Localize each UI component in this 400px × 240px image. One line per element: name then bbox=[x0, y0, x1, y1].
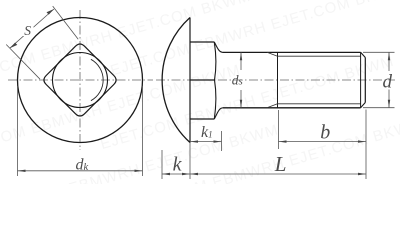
dimension s extension line upper bbox=[53, 6, 78, 39]
chamfer diagonal top bbox=[361, 52, 366, 57]
chamfer diagonal bottom bbox=[361, 103, 366, 108]
k dimension line bbox=[162, 173, 190, 175]
arrow ds up bbox=[240, 52, 242, 60]
ds dimension line upper bbox=[240, 52, 242, 70]
thread runout diagonal bottom bbox=[267, 104, 278, 108]
arrow b right bbox=[358, 140, 366, 142]
svg-text:L: L bbox=[274, 152, 287, 176]
neck-to-shank fillet lower bbox=[214, 108, 223, 119]
b/L right extension line bbox=[365, 110, 367, 180]
arrow s upper bbox=[47, 9, 55, 15]
svg-text:ds: ds bbox=[232, 72, 243, 87]
b left extension line bbox=[278, 110, 280, 149]
chamfer edge line bbox=[360, 52, 362, 107]
thread start line bbox=[277, 52, 279, 107]
arrow s lower bbox=[10, 43, 17, 49]
arrow dk right bbox=[135, 170, 143, 172]
thread minor line bottom bbox=[278, 103, 361, 105]
ds dimension line lower bbox=[240, 90, 242, 108]
d extension line bottom bbox=[363, 107, 395, 109]
arrow k1 right bbox=[214, 140, 222, 142]
arrow k1 left bbox=[190, 140, 198, 142]
arrow k left bbox=[162, 173, 170, 175]
k left extension line (dome crown) bbox=[161, 150, 163, 179]
shank bottom line bbox=[223, 107, 361, 109]
label s backing bbox=[23, 25, 34, 37]
dk extension line left bbox=[17, 86, 19, 176]
k1 dimension line bbox=[190, 141, 222, 143]
arrow L left bbox=[190, 173, 198, 175]
square corner arc lower bbox=[214, 80, 216, 119]
thread minor line top bbox=[278, 55, 361, 57]
arrow L right bbox=[358, 173, 366, 175]
head bearing face bbox=[189, 18, 191, 143]
bolt axis centerline bbox=[156, 79, 395, 81]
dimension s line bbox=[10, 9, 54, 48]
thread runout diagonal top bbox=[267, 52, 278, 56]
svg-text:k1: k1 bbox=[201, 124, 213, 141]
square corner edge line bbox=[190, 79, 215, 81]
svg-text:dk: dk bbox=[76, 156, 89, 173]
square neck bottom edge bbox=[190, 118, 214, 120]
arrow b left bbox=[279, 140, 287, 142]
arrow dk left bbox=[18, 170, 26, 172]
d extension line top bbox=[363, 51, 395, 53]
dk extension line right bbox=[142, 86, 144, 176]
head circle dk bbox=[18, 18, 143, 143]
head face extension line down bbox=[189, 143, 191, 180]
d dimension line bbox=[388, 52, 390, 71]
neck-to-shank fillet upper bbox=[214, 42, 223, 52]
svg-text:d: d bbox=[383, 71, 393, 92]
arrow ds down bbox=[240, 100, 242, 108]
b dimension line bbox=[279, 141, 367, 143]
end face line bbox=[364, 58, 366, 103]
k1 right extension line bbox=[221, 131, 223, 151]
dimension s extension line lower bbox=[6, 45, 40, 80]
arrow d up bbox=[388, 52, 390, 60]
dome head arc bbox=[162, 18, 190, 143]
svg-text:k: k bbox=[173, 153, 183, 175]
L dimension line bbox=[190, 173, 366, 175]
dk dimension line bbox=[18, 170, 143, 172]
vertical centerline bbox=[79, 10, 81, 150]
square neck top edge bbox=[190, 41, 214, 43]
svg-text:b: b bbox=[320, 122, 330, 144]
shank top line bbox=[223, 51, 361, 53]
square corner arc upper bbox=[214, 42, 216, 80]
square neck outline (rotated square) bbox=[44, 44, 116, 116]
arrow d down bbox=[388, 100, 390, 108]
dome crown arc bbox=[91, 59, 103, 100]
shank circle ds bbox=[53, 53, 108, 108]
horizontal centerline left view bbox=[8, 79, 153, 81]
arrow k right bbox=[182, 173, 190, 175]
svg-text:S: S bbox=[24, 23, 31, 38]
